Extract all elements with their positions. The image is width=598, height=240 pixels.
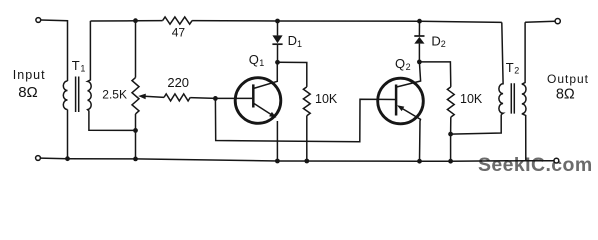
junction D1 cathode / Q1 collector / 10K bbox=[275, 60, 280, 65]
svg-text:Q: Q bbox=[249, 52, 259, 67]
2.5K resistive element bbox=[132, 78, 139, 114]
svg-text:2: 2 bbox=[441, 39, 446, 49]
svg-text:1: 1 bbox=[80, 64, 85, 74]
Q2 collector lead bbox=[397, 62, 421, 87]
svg-text:1: 1 bbox=[297, 39, 302, 49]
diode D1 bbox=[272, 21, 282, 62]
junction bottom rail / 10K first bbox=[304, 159, 309, 164]
top rail bbox=[91, 21, 502, 23]
junction 10K bottom / T2 primary bottom bbox=[448, 132, 453, 137]
D2 anode triangle bbox=[414, 37, 424, 44]
10K first zigzag bbox=[303, 87, 310, 116]
bottom rail bbox=[68, 159, 554, 162]
resistor 47 bbox=[163, 17, 193, 24]
svg-text:D: D bbox=[431, 33, 440, 48]
Q1 base bar bbox=[252, 84, 255, 107]
wire 10K second bottom lead bbox=[450, 117, 452, 161]
T2 core bbox=[511, 83, 514, 113]
junction bottom rail / Q1 emitter bbox=[275, 159, 280, 164]
wire T1 primary bottom bbox=[67, 110, 69, 159]
junction top rail / D1 anode bbox=[275, 19, 280, 24]
Q1 envelope circle bbox=[235, 78, 281, 124]
T2 primary coil bbox=[499, 22, 503, 114]
transistor Q1 bbox=[235, 62, 281, 161]
wire output top bbox=[525, 21, 555, 22]
wire input bottom bbox=[41, 157, 68, 160]
Q2 envelope circle bbox=[378, 78, 424, 124]
output terminal top bbox=[555, 19, 560, 24]
Q1 collector lead bbox=[254, 62, 277, 88]
wire D1 anode lead bbox=[277, 21, 279, 35]
junction bottom rail / 10K second bbox=[448, 159, 453, 164]
svg-text:Input: Input bbox=[13, 68, 46, 82]
base link wire Q1 base to Q2 base bbox=[215, 98, 395, 141]
resistor 10K second bbox=[419, 62, 454, 161]
svg-text:8Ω: 8Ω bbox=[18, 84, 38, 101]
junction bottom rail / Q2 emitter bbox=[417, 159, 422, 164]
input terminal bottom bbox=[36, 156, 41, 161]
transformer T2 bbox=[499, 22, 526, 160]
D1 anode triangle bbox=[272, 35, 282, 43]
svg-text:220: 220 bbox=[167, 75, 189, 90]
T1 core bbox=[76, 77, 79, 113]
junction bottom rail / T1 primary bbox=[65, 156, 70, 161]
D1 cathode bar bbox=[272, 43, 282, 45]
wire 10K second to T2 primary bottom bbox=[451, 115, 502, 135]
junction top rail / 2.5K top bbox=[133, 18, 138, 23]
wire 10K second top lead bbox=[419, 62, 450, 87]
wire D1 cathode lead bbox=[277, 45, 279, 62]
10K second zigzag bbox=[447, 87, 454, 117]
Q2 emitter arrow bbox=[397, 105, 404, 111]
T1 secondary coil bbox=[88, 21, 136, 130]
svg-text:2: 2 bbox=[406, 62, 411, 72]
svg-text:1: 1 bbox=[259, 58, 264, 68]
junction T1 secondary bottom / 2.5K bottom bbox=[133, 128, 138, 133]
transformer T1 bbox=[63, 21, 135, 130]
svg-text:47: 47 bbox=[172, 25, 186, 39]
svg-text:D: D bbox=[288, 33, 297, 48]
wire input top bbox=[41, 20, 68, 81]
junction top rail / D2 cathode bbox=[417, 19, 422, 24]
wiper arrow bbox=[145, 96, 165, 97]
svg-text:T: T bbox=[506, 60, 514, 75]
D2 cathode bar bbox=[414, 35, 424, 37]
diode D2 bbox=[414, 21, 424, 62]
T2 secondary coil bbox=[522, 22, 526, 160]
transistor Q2 bbox=[378, 62, 424, 161]
input terminal top bbox=[36, 18, 41, 23]
wire 220 to Q1 base bbox=[190, 97, 252, 100]
svg-text:Q: Q bbox=[395, 56, 405, 71]
wire 10K first top lead bbox=[278, 62, 307, 87]
junction D2 anode / Q2 collector / 10K bbox=[417, 60, 422, 65]
wire D2 anode lead bbox=[418, 44, 420, 62]
wire D2 cathode lead bbox=[418, 21, 420, 36]
svg-text:8Ω: 8Ω bbox=[556, 86, 575, 102]
svg-text:10K: 10K bbox=[460, 92, 483, 106]
junction bottom rail / 2.5K leg bbox=[133, 157, 138, 162]
T1 primary coil bbox=[63, 81, 67, 110]
wire 2.5K top lead bbox=[135, 21, 137, 78]
svg-text:10K: 10K bbox=[315, 92, 338, 106]
resistor 220 bbox=[164, 94, 190, 101]
output terminal bottom bbox=[554, 158, 559, 163]
Q1 emitter lead bbox=[254, 103, 275, 116]
resistor 10K first bbox=[278, 62, 311, 161]
Q2 emitter lead and wire to rail bbox=[402, 108, 421, 161]
wire 10K first bottom lead bbox=[306, 116, 308, 161]
junction Q1 base node bbox=[213, 96, 218, 101]
svg-text:Output: Output bbox=[547, 72, 589, 86]
potentiometer 2.5K bbox=[132, 21, 164, 159]
svg-text:T: T bbox=[72, 58, 80, 73]
Q2 base bar bbox=[395, 85, 398, 116]
Q1 emitter arrow bbox=[269, 112, 276, 118]
wire Q1 emitter to rail bbox=[276, 121, 278, 161]
svg-text:2: 2 bbox=[514, 65, 519, 75]
svg-text:SeekIC.com: SeekIC.com bbox=[478, 154, 593, 176]
wire 2.5K bottom lead bbox=[135, 114, 137, 159]
svg-text:2.5K: 2.5K bbox=[102, 88, 127, 102]
